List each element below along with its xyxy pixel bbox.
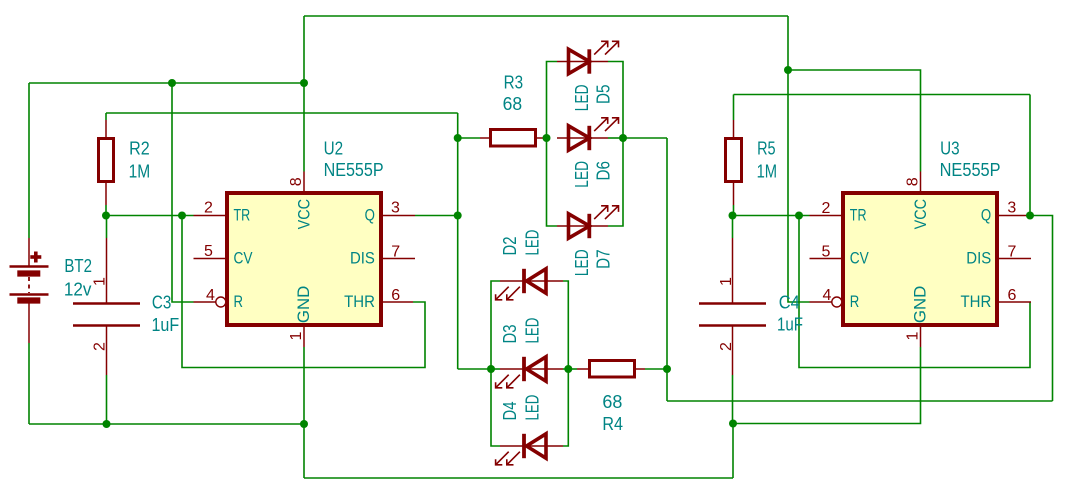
svg-text:4: 4 (823, 287, 832, 304)
wire bank link right (623, 137, 667, 139)
svg-text:THR: THR (344, 292, 375, 311)
svg-text:D7: D7 (594, 249, 614, 269)
U3 pin 2 TR stub (810, 215, 842, 217)
svg-text:12v: 12v (64, 279, 92, 299)
svg-text:R: R (234, 292, 244, 311)
wire R2 top join (105, 113, 107, 120)
wire D3 right join (563, 368, 568, 370)
U3 pin 6 THR stub (999, 301, 1031, 303)
svg-text:LED: LED (523, 230, 543, 256)
wire bottom bank right rail (563, 281, 568, 446)
wire Q rail to D2 bank (458, 368, 491, 370)
svg-text:Q: Q (365, 206, 375, 225)
wire VCC horizontal to U2 (29, 82, 304, 84)
IC U2 NE555P body (227, 193, 381, 325)
svg-text:R5: R5 (757, 139, 776, 159)
wire U3 feedback top (734, 94, 1031, 96)
junction D3 left rail (487, 365, 495, 373)
junction D6 right rail (619, 134, 627, 142)
svg-text:1uF: 1uF (777, 315, 803, 335)
battery BT2 (10, 238, 49, 343)
resistor R5 (726, 120, 742, 205)
wire D6 right join (608, 137, 623, 139)
wire VCC to U3 pin8 (788, 70, 921, 172)
junction VCC-reset U2 (168, 79, 176, 87)
svg-text:CV: CV (234, 249, 254, 268)
junction R3 left (454, 134, 462, 142)
wire U2 VCC drop from top bus (303, 16, 305, 172)
svg-text:LED: LED (572, 84, 592, 111)
wire U3 reset net vertical (788, 70, 810, 302)
junction U3 Q (1026, 212, 1034, 220)
U3 pin 7 DIS stub (999, 258, 1031, 260)
junction VCC U3 drop (784, 66, 792, 74)
wire U3 Q net vertical mid (666, 138, 668, 401)
svg-text:U2: U2 (324, 139, 344, 159)
svg-text:1: 1 (288, 331, 305, 340)
resistor R4 (577, 361, 645, 378)
svg-text:R4: R4 (602, 414, 623, 434)
junction U2 TR-THR loop (178, 212, 186, 220)
svg-text:68: 68 (503, 94, 522, 114)
U2 pin 4 R stub with bubble (194, 301, 216, 303)
wire U3 Q net bottom (667, 400, 1053, 402)
svg-text:68: 68 (602, 392, 622, 412)
wire U2 THR loop (182, 216, 425, 368)
junction R3 right rail (543, 134, 551, 142)
svg-text:2: 2 (92, 342, 109, 351)
svg-text:R2: R2 (129, 139, 150, 159)
svg-text:R: R (850, 292, 860, 311)
wire U3 THR loop (799, 216, 1030, 368)
svg-text:4: 4 (206, 287, 215, 304)
wire GND rail left (29, 423, 304, 425)
junction U2 TR-R2-C3 (102, 212, 110, 220)
LED D3 (496, 357, 563, 388)
U2 pin 5 CV stub (194, 258, 226, 260)
U3 pin 8 VCC stub (920, 172, 922, 192)
wire U2 feedback top (106, 112, 458, 114)
LED D7 (557, 206, 619, 238)
LED D5 (557, 41, 619, 73)
junction R4 right (663, 365, 671, 373)
svg-text:3: 3 (391, 200, 400, 217)
capacitor C4 (699, 238, 766, 375)
svg-text:D2: D2 (500, 237, 520, 256)
junction U3 TR-R5-C4 (729, 212, 737, 220)
junction U2 GND (300, 420, 308, 428)
wire R4 right join (645, 368, 667, 370)
svg-text:CV: CV (850, 249, 870, 268)
U2 pin 6 THR stub (383, 301, 413, 303)
svg-text:THR: THR (961, 292, 992, 311)
svg-text:1M: 1M (129, 162, 151, 182)
svg-text:LED: LED (523, 318, 543, 344)
capacitor C3 (73, 238, 140, 375)
svg-text:BT2: BT2 (64, 256, 92, 276)
U3 pin 1 GND stub (920, 327, 922, 347)
wire GND bus up right (732, 424, 734, 479)
U2 pin 2 TR stub (194, 215, 226, 217)
wire U3 Q net right riser (1030, 216, 1053, 402)
wire U2 TR net (106, 215, 194, 217)
wire U3 TR net (733, 215, 810, 217)
svg-text:VCC: VCC (295, 199, 314, 229)
wire battery plus up (28, 83, 30, 238)
svg-text:DIS: DIS (966, 249, 991, 268)
wire D3 left join (491, 368, 500, 370)
U2 pin 7 DIS stub (383, 258, 415, 260)
wire R5 top join (733, 95, 735, 121)
wire top bank left rail (547, 62, 558, 227)
wire U2 reset net vertical (172, 83, 194, 302)
svg-text:D6: D6 (594, 161, 614, 181)
svg-text:7: 7 (1008, 244, 1017, 261)
wire D6 left join (547, 137, 551, 139)
wire GND rail right (733, 347, 921, 424)
junction U2 Q (454, 212, 462, 220)
wire R4 left join (568, 368, 577, 370)
IC U3 NE555P body (843, 193, 997, 325)
svg-text:1uF: 1uF (152, 315, 180, 335)
svg-text:3: 3 (1007, 200, 1016, 217)
svg-text:LED: LED (523, 395, 543, 421)
wire bottom bank left rail (491, 281, 500, 446)
U2 pin 3 Q stub (383, 215, 415, 217)
svg-text:D4: D4 (500, 402, 520, 421)
resistor R3 (480, 130, 547, 147)
wire U3 VCC drop (787, 16, 789, 70)
wire C3 top join (106, 216, 108, 239)
svg-text:2: 2 (822, 200, 831, 217)
svg-text:1: 1 (905, 331, 922, 340)
svg-text:U3: U3 (940, 139, 960, 159)
svg-text:6: 6 (1008, 287, 1017, 304)
svg-text:2: 2 (718, 342, 735, 351)
svg-text:8: 8 (905, 177, 922, 186)
svg-text:1: 1 (92, 277, 109, 286)
LED D4 (496, 434, 563, 465)
svg-text:Q: Q (981, 206, 991, 225)
U3 pin 5 CV stub (810, 258, 842, 260)
wire R2 bottom lead join (105, 205, 107, 216)
wire U2 GND stub down (303, 347, 305, 478)
svg-text:C4: C4 (779, 293, 800, 313)
svg-text:C3: C3 (152, 293, 171, 313)
svg-text:6: 6 (391, 287, 400, 304)
svg-text:1M: 1M (757, 161, 778, 181)
wire top bank right rail (608, 62, 623, 227)
junction C3 GND (103, 420, 111, 428)
LED D2 (496, 269, 563, 300)
svg-text:GND: GND (911, 286, 930, 323)
resistor R2 (99, 120, 114, 205)
battery BT2 plus sign (30, 252, 41, 263)
junction D3 right rail (564, 365, 572, 373)
svg-text:LED: LED (572, 161, 592, 188)
svg-text:7: 7 (391, 244, 400, 261)
wire R5 bottom join (733, 205, 735, 216)
wire U3 Q rail up (1029, 95, 1031, 216)
svg-text:TR: TR (234, 206, 251, 225)
junction VCC U2 pin8 (300, 79, 308, 87)
svg-text:VCC: VCC (911, 199, 930, 229)
junction U3 TR-THR loop (795, 212, 803, 220)
junction C4 GND (729, 420, 737, 428)
svg-text:5: 5 (204, 243, 213, 260)
U3 pin 3 Q stub (999, 215, 1031, 217)
wire R3 left join (458, 137, 480, 139)
svg-text:8: 8 (288, 177, 305, 186)
U2 pin 8 VCC stub (303, 172, 305, 192)
wire C3 bottom to GND (106, 375, 108, 424)
svg-text:TR: TR (850, 206, 867, 225)
wire C4 bottom to GND (732, 375, 734, 424)
LED D6 (557, 118, 619, 150)
wire top VCC bus (304, 15, 788, 17)
wire U2 Q rail vertical (457, 113, 459, 369)
svg-text:5: 5 (822, 244, 831, 261)
wire GND bottom bus (304, 477, 733, 479)
svg-text:NE555P: NE555P (940, 160, 1001, 180)
wire C4 top join (732, 216, 734, 239)
U3 pin 4 R stub with bubble (810, 301, 832, 303)
svg-text:2: 2 (204, 200, 213, 217)
svg-text:DIS: DIS (350, 249, 375, 268)
svg-text:D3: D3 (500, 325, 520, 344)
svg-text:R3: R3 (504, 73, 523, 93)
svg-text:GND: GND (294, 286, 313, 323)
wire U2 Q output (415, 215, 458, 217)
wire battery minus down (28, 343, 30, 424)
svg-text:LED: LED (572, 249, 592, 276)
svg-text:NE555P: NE555P (324, 160, 384, 180)
svg-text:1: 1 (718, 277, 735, 286)
svg-text:D5: D5 (594, 85, 614, 105)
U2 pin 1 GND stub (303, 327, 305, 347)
